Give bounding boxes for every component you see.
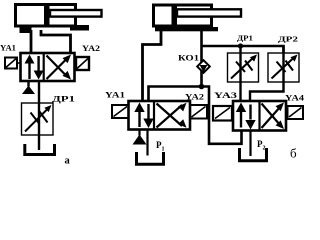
throttle DR2 box [268,53,299,82]
pressure source triangle P1 [133,135,147,145]
svg-text:ДР1: ДР1 [237,34,253,43]
solenoid YA2 (a) [76,57,89,70]
valve b-left crossed arrow 2 [157,104,183,127]
svg-text:YA1: YA1 [0,44,16,53]
wire valve b-left drain to tank [146,130,148,156]
pressure source stem (b left) [138,130,140,136]
valve b-left crossed arrow 1 [157,105,183,128]
tank (b left) [137,152,164,164]
valve P1 body (a) 4/2 [21,53,75,81]
throttle DR1 (b) adjust arrow [231,57,254,79]
node junction on feeder at DR1 [238,43,243,48]
throttle DR1 (a) restrictor strokes [31,113,40,125]
cylinder Ц1 (circuit b) [154,4,242,32]
valve a left-square down arrow [37,56,39,71]
svg-text:ДР2: ДР2 [278,35,298,44]
throttle DR1 (b) box [228,53,259,82]
svg-text:а: а [65,156,71,167]
wire cylinder-b right port down (rod side) [200,30,203,87]
valve a left-square up arrow [28,60,30,79]
svg-text:б: б [290,146,297,161]
svg-text:YA3: YA3 [214,91,237,100]
node junction dot at KO1 line [199,84,205,90]
svg-text:YA4: YA4 [285,94,304,103]
wire through DR2 jog to valve YA3/YA4 [250,46,284,101]
wire cylinder-b left port elbow down to valve YA1/YA2 [143,30,162,101]
valve b-left down arrow [147,104,149,119]
throttle DR1 (a) box [22,103,54,135]
solenoid YA1 (a) [5,58,21,69]
svg-text:YA1: YA1 [105,91,125,100]
pressure source stem (a) [27,81,29,87]
svg-text:КО1: КО1 [178,54,199,63]
svg-text:ДР1: ДР1 [52,95,75,104]
wire through DR1 down to valve YA3/YA4 [239,46,241,101]
solenoid YA3 [213,106,232,121]
wire valve b-right drain to tank [249,131,251,157]
wire feeder branch to throttles [202,46,284,53]
tank (b right) [240,148,267,161]
cylinder Ц1 (circuit a) [16,3,102,33]
throttle DR2 adjust arrow [272,57,295,79]
valve b-right crossed arrow 2 [262,104,281,126]
valve P3 body (b right) 4/2 [233,101,286,131]
wire cylinder-a left port to valve [30,30,33,54]
valve a right-square crossed arrow 1 [47,59,68,80]
solenoid YA4 [288,106,304,119]
wire branch left to valve YA1/YA2 and U-line to valve YA3/YA4 [149,87,242,144]
tank (a) [25,144,55,155]
valve b-right crossed arrow 1 [262,107,281,129]
pressure source triangle (a) [22,86,35,95]
solenoid YA1 (b) [112,105,129,118]
wire cylinder-a right port elbow to valve [41,30,71,54]
valve b-right up arrow [240,109,242,128]
valve P2 body (b left) 4/2 [129,101,191,130]
check valve KO1 [197,60,210,73]
throttle DR1 (b) restrictor strokes [236,62,245,73]
throttle DR1 (a) adjust arrow [25,108,49,132]
valve b-left up arrow [138,108,140,127]
wire valve-a drain through throttle [38,81,40,150]
solenoid YA2 (b) [190,105,207,119]
valve b-right down arrow [249,105,251,120]
throttle DR2 restrictor strokes [277,62,286,73]
valve a right-square crossed arrow 2 [47,56,68,77]
svg-text:YA2: YA2 [82,44,100,53]
